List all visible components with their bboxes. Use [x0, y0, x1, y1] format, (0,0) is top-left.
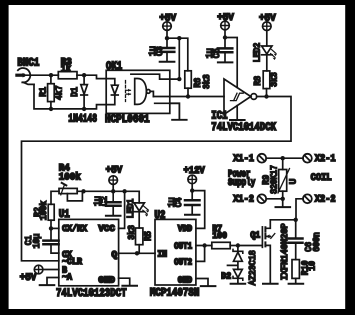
svg-text:U1: U1 — [59, 209, 70, 221]
svg-text:74LVC1G14DCK: 74LVC1G14DCK — [211, 122, 276, 134]
svg-text:HCPL0601: HCPL0601 — [105, 114, 150, 126]
svg-text:Q1: Q1 — [250, 230, 260, 240]
svg-text:GND: GND — [98, 275, 115, 285]
resistor R5 — [136, 228, 143, 253]
ground (C4) — [185, 214, 200, 216]
ground (U1 ~A) — [40, 284, 55, 286]
svg-text:1k: 1k — [61, 63, 71, 74]
wire X1-2 to R9 bottom — [266, 198, 283, 200]
svg-text:OUT2: OUT2 — [174, 257, 192, 267]
monostable U1 74LVC1G123DCT — [59, 219, 119, 285]
LED LED2 — [262, 46, 277, 71]
capacitor C2 — [106, 191, 121, 215]
svg-text:3k3: 3k3 — [270, 72, 280, 87]
LED LED1 — [134, 203, 149, 228]
svg-text:VDD: VDD — [178, 224, 192, 234]
svg-text:LED2: LED2 — [253, 43, 263, 63]
wire OK1 output to IC1 input — [153, 96, 224, 98]
svg-text:X2-2: X2-2 — [315, 194, 336, 205]
supply +5V (C5/IC1) — [221, 21, 230, 47]
svg-text:D1: D1 — [70, 87, 80, 97]
svg-text:+5V: +5V — [106, 165, 123, 176]
supply +5V (U1 pin B) — [34, 265, 59, 274]
svg-text:U2: U2 — [154, 210, 165, 222]
connector X1-2 — [257, 194, 266, 203]
wire bottom return BNC shield — [34, 84, 106, 109]
zener pair D2 AZ23C18 — [228, 246, 243, 283]
svg-text:Supply: Supply — [228, 177, 255, 188]
optocoupler OK1 HCPL0601 — [106, 70, 179, 113]
svg-text:IC1: IC1 — [211, 111, 228, 123]
svg-text:~A: ~A — [62, 272, 73, 282]
svg-text:100k: 100k — [59, 172, 81, 183]
wire U1 GND to ground — [119, 278, 130, 285]
svg-text:R1: R1 — [39, 87, 49, 97]
transistor Q1 IXFN140N20P — [262, 220, 274, 283]
svg-text:3k3: 3k3 — [127, 225, 137, 240]
ground (OK1 gnd) — [170, 103, 187, 120]
svg-text:74LVC1G123DCT: 74LVC1G123DCT — [56, 288, 127, 300]
capacitor C3 — [160, 48, 175, 61]
ground (C2) — [106, 215, 121, 217]
wire R3 to OK1 anode — [77, 75, 106, 78]
resistor R7 — [212, 242, 238, 248]
wire CX/RX node — [51, 227, 59, 229]
wire R4 right to +5V rail and LED1 — [77, 191, 139, 203]
svg-text:Q: Q — [112, 250, 118, 260]
svg-text:AZ23C18: AZ23C18 — [248, 250, 258, 285]
varistor R9 S20K17 — [278, 158, 290, 206]
wire Q1 drain to X2-2 node — [270, 219, 295, 221]
wire +12V to U2 VDD — [192, 191, 205, 229]
connector X1-1 — [257, 154, 266, 163]
wire +5V to IC1 VCC — [225, 38, 237, 88]
resistor R6 — [185, 71, 192, 97]
svg-text:GND: GND — [178, 275, 192, 285]
supply +5V (rail/C2) — [109, 176, 118, 192]
svg-text:MCP1407SN: MCP1407SN — [150, 288, 200, 300]
svg-text:R8: R8 — [253, 76, 263, 86]
svg-text:3k3: 3k3 — [202, 74, 212, 89]
wire R2 top to R4 left — [51, 191, 59, 204]
ground (C5) — [218, 61, 233, 63]
svg-text:10: 10 — [308, 261, 318, 271]
wire X2-2 down to snubber node — [296, 199, 303, 238]
svg-text:R5: R5 — [144, 231, 154, 241]
resistor R1 — [48, 75, 55, 109]
svg-text:100: 100 — [212, 231, 227, 241]
svg-text:VCC: VCC — [98, 224, 115, 234]
resistor R10 — [292, 260, 299, 283]
svg-text:+12V: +12V — [184, 165, 205, 176]
ground (R10) — [289, 283, 304, 285]
ground (U1 GND) — [122, 285, 137, 287]
svg-text:U: U — [289, 179, 299, 185]
wire X1-1 to X2-1 — [266, 157, 303, 159]
svg-text:X1-2: X1-2 — [233, 194, 254, 205]
wire BNC to R3 (node IN top) — [27, 74, 59, 76]
ground (D2) — [231, 283, 246, 285]
trimmer R4 — [59, 183, 82, 201]
supply +12V — [188, 175, 197, 199]
wire U1 Q to U2 IN — [119, 252, 155, 254]
svg-text:+5V: +5V — [159, 12, 176, 23]
ground (Q1 source) — [263, 283, 278, 285]
svg-text:BNC1: BNC1 — [17, 58, 39, 70]
svg-text:1N4148: 1N4148 — [68, 113, 97, 125]
ground (U2 GND) — [201, 285, 216, 287]
resistor R2 — [48, 204, 54, 228]
diode D1 1N4148 — [81, 75, 88, 109]
svg-text:OUT1: OUT1 — [174, 242, 192, 252]
svg-text:IN: IN — [157, 249, 167, 259]
svg-text:D2: D2 — [221, 272, 231, 282]
svg-text:10µ: 10µ — [32, 234, 42, 249]
capacitor C1 — [43, 228, 58, 253]
connector X2-2 — [303, 194, 312, 203]
svg-text:100k: 100k — [39, 201, 49, 221]
capacitor C6 — [289, 239, 303, 260]
ground (IC1) — [230, 119, 245, 121]
svg-text:+5V: +5V — [217, 12, 234, 23]
resistor R8 — [263, 71, 270, 97]
wire U2 GND to ground — [196, 279, 208, 286]
wire U2 OUT1/OUT2 join — [196, 246, 212, 262]
svg-text:LED1: LED1 — [126, 199, 136, 219]
wire R7 to Q1 gate — [238, 245, 262, 247]
wire +5V rail to OK1 vcc and R6 — [167, 38, 188, 79]
svg-text:+5V: +5V — [259, 12, 276, 23]
ground (C3) — [160, 61, 175, 63]
wire IC1 output feedback to U1 ~CLR — [22, 97, 292, 261]
svg-text:+5V: +5V — [20, 272, 37, 283]
junction dots — [165, 36, 182, 81]
supply +5V (LED2) — [263, 22, 272, 46]
svg-text:X1-1: X1-1 — [233, 153, 254, 164]
wire U1 ~A to ground — [47, 278, 59, 285]
ground (R9) — [276, 206, 291, 208]
inverter IC1 74LVC1G14DCK — [224, 79, 257, 119]
svg-text:C5: C5 — [212, 48, 222, 58]
driver U2 MCP1407SN — [155, 219, 196, 285]
svg-text:OK1: OK1 — [106, 61, 123, 73]
svg-text:C3: C3 — [155, 46, 165, 56]
svg-text:C2: C2 — [99, 196, 109, 206]
svg-text:4k7: 4k7 — [55, 85, 65, 100]
svg-text:S20K17: S20K17 — [269, 165, 279, 194]
svg-text:600n: 600n — [312, 232, 322, 252]
connector X2-1 — [303, 154, 312, 163]
junction node dots BNC/R1/D1 — [49, 73, 87, 111]
svg-text:COIL: COIL — [311, 172, 332, 183]
wire U1 VCC up to +5V rail — [119, 191, 125, 228]
capacitor C5 — [218, 48, 233, 61]
svg-text:IXFN140N20P: IXFN140N20P — [280, 223, 290, 280]
svg-text:CX/RX: CX/RX — [62, 224, 88, 234]
svg-text:X2-1: X2-1 — [315, 153, 336, 164]
supply +5V (C3/OK1) — [163, 22, 172, 47]
svg-text:C4: C4 — [174, 198, 184, 208]
connector BNC1 — [17, 68, 34, 84]
capacitor C4 — [185, 200, 200, 214]
resistor R3 — [58, 72, 77, 79]
